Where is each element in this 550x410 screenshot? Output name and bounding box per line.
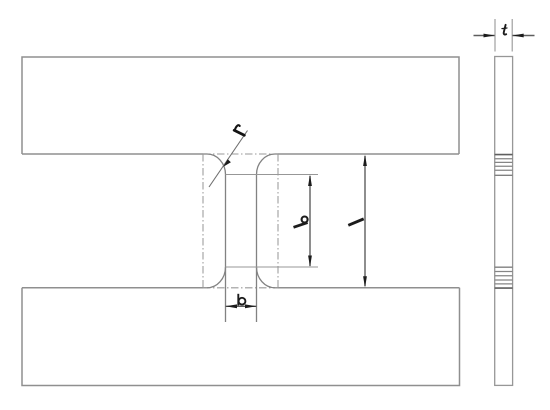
- fillet bottom-left: [207, 267, 226, 288]
- side view hatch group bottom: [495, 272, 513, 284]
- arrow r: [223, 159, 231, 167]
- side view hatch bottom edge line: [495, 287, 513, 289]
- extension line l_o top: [226, 174, 319, 176]
- label l_o: [294, 217, 308, 228]
- arrow l_o top: [308, 175, 312, 187]
- dimension line b: [226, 305, 257, 307]
- extension line l_o bottom: [226, 266, 319, 268]
- arrow b right: [245, 304, 257, 308]
- fillet bottom-right: [257, 267, 276, 288]
- arrow l bottom: [363, 276, 367, 288]
- centerline right (dash-dot vertical): [277, 154, 279, 288]
- arrow t right: [512, 34, 524, 38]
- side view hatch group top: [495, 159, 513, 171]
- leader line r: [209, 131, 248, 188]
- centerline left (dash-dot vertical): [202, 154, 204, 288]
- extension line t right: [511, 19, 513, 52]
- top grip rectangle: [22, 57, 459, 154]
- dimension line l_o: [309, 176, 311, 266]
- side view hatch bottom first line: [495, 266, 513, 268]
- arrow t left: [484, 34, 496, 38]
- extension line t left: [494, 19, 496, 52]
- centerline top (dash-dot horizontal): [203, 153, 278, 155]
- dimension line t right: [513, 35, 535, 37]
- centerline bottom (dash-dot horizontal): [203, 287, 278, 289]
- arrow b left: [226, 304, 238, 308]
- label l: [348, 219, 363, 225]
- fillet top-left: [207, 154, 226, 175]
- side view hatch top last line: [495, 174, 513, 176]
- gauge section left edge (with b extension below): [225, 175, 227, 323]
- side view hatch top edge line: [495, 154, 513, 156]
- label b: [238, 294, 245, 306]
- dimension line l: [364, 156, 366, 286]
- arrow l top: [363, 155, 367, 167]
- gauge section right edge (with b extension below): [256, 175, 258, 323]
- fillet top-right: [257, 154, 276, 175]
- label t: [502, 25, 507, 35]
- dimension line t left: [474, 35, 495, 37]
- label r: [234, 125, 244, 135]
- side view plate: [495, 57, 513, 386]
- arrow l_o bottom: [308, 256, 312, 268]
- bottom grip rectangle: [22, 288, 460, 386]
